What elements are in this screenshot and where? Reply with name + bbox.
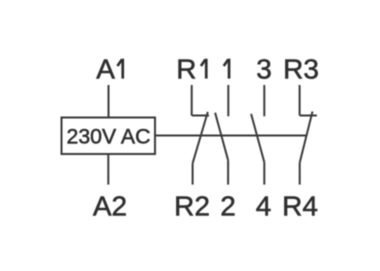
label R1 [176, 54, 207, 85]
svg-text:230V AC: 230V AC [67, 125, 151, 149]
svg-text:A: A [96, 54, 115, 85]
svg-text:R2: R2 [174, 190, 210, 221]
svg-text:R: R [176, 54, 196, 85]
NC contact R3-R4 seat [300, 115, 317, 117]
wire R1 terminal [191, 85, 193, 116]
wire 1 terminal [227, 85, 229, 116]
wire 2 terminal [227, 160, 229, 184]
svg-text:A2: A2 [93, 190, 127, 221]
wire A1 [108, 85, 110, 118]
wire actuator link [155, 135, 306, 137]
wire A2 [107, 154, 109, 185]
wire R2 terminal [192, 163, 194, 184]
label A1 [96, 54, 124, 85]
svg-text:R3: R3 [283, 54, 319, 85]
wire 4 terminal [263, 162, 265, 184]
NC contact R1-R2 seat [192, 115, 209, 117]
svg-text:R4: R4 [282, 190, 318, 221]
NC contact R3-R4 blade [300, 112, 313, 163]
coil box 230V AC [62, 118, 156, 155]
svg-text:4: 4 [256, 190, 272, 221]
wire R4 terminal [299, 163, 301, 185]
svg-text:2: 2 [220, 190, 236, 221]
svg-text:3: 3 [256, 54, 272, 85]
label 1 [224, 59, 231, 79]
NO contact 1-2 blade [215, 113, 228, 161]
wire R3 terminal [299, 85, 301, 116]
NC contact R1-R2 blade [193, 112, 208, 163]
wire 3 terminal [263, 85, 265, 116]
NO contact 3-4 blade [251, 114, 264, 162]
